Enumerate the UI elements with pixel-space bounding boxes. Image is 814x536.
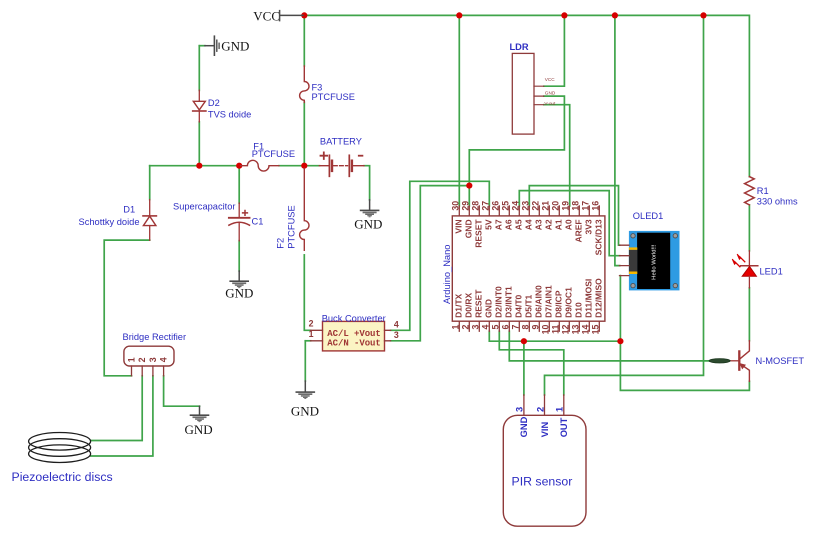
fuse F3 PTCFUSE [300, 66, 309, 102]
wire OLED pin4 to GND net [619, 276, 621, 342]
svg-text:A7: A7 [494, 219, 504, 230]
wire VCC rail to R1 [304, 15, 749, 176]
svg-text:Piezoelectric discs: Piezoelectric discs [12, 470, 113, 484]
svg-text:Bridge Rectifier: Bridge Rectifier [123, 332, 187, 342]
Arduino pin stubs [459, 206, 599, 331]
resistor R1 [745, 177, 755, 205]
svg-text:20: 20 [550, 201, 560, 211]
svg-text:D7/AIN1: D7/AIN1 [544, 285, 554, 318]
svg-text:3: 3 [470, 325, 480, 330]
wire buck AC/N lead [305, 340, 310, 342]
svg-text:Hello World!!!: Hello World!!! [652, 244, 658, 280]
svg-text:15: 15 [590, 325, 600, 335]
svg-text:D11/MOSI: D11/MOSI [584, 279, 594, 318]
svg-text:D6/AIN0: D6/AIN0 [534, 285, 544, 318]
LED LED1 [732, 251, 758, 288]
wire GND to D2 [198, 46, 200, 91]
svg-text:17: 17 [580, 201, 590, 211]
svg-text:24: 24 [510, 201, 520, 211]
OLED1 module [620, 231, 680, 291]
svg-text:2: 2 [137, 357, 147, 362]
svg-text:Schottky doide: Schottky doide [79, 217, 140, 227]
svg-text:GND: GND [354, 216, 382, 231]
wire ground lead C1 [238, 271, 240, 280]
svg-text:1: 1 [450, 325, 460, 330]
svg-text:5: 5 [490, 325, 500, 330]
svg-text:BATTERY: BATTERY [320, 137, 362, 147]
svg-text:4: 4 [159, 357, 169, 362]
svg-text:18: 18 [570, 201, 580, 211]
wire ground lead buck [304, 381, 306, 391]
svg-text:D5/T1: D5/T1 [524, 294, 534, 317]
svg-text:LED1: LED1 [760, 267, 783, 277]
svg-text:A1: A1 [554, 219, 564, 230]
ground top-left (bar style) [205, 36, 219, 55]
svg-text:TVS doide: TVS doide [208, 110, 251, 120]
svg-text:A2: A2 [544, 219, 554, 230]
svg-text:AREF: AREF [574, 219, 584, 242]
svg-text:SCK/D13: SCK/D13 [594, 219, 604, 255]
svg-text:Supercapacitor: Supercapacitor [173, 202, 236, 212]
svg-text:GND: GND [545, 91, 556, 96]
wire VCC to fuse F3 [303, 15, 305, 66]
svg-text:V-out: V-out [544, 101, 556, 106]
wire Arduino GND pin29 to LDR GND [469, 96, 564, 206]
wire F2 gap segment [303, 255, 305, 260]
svg-text:Arduino_Nano: Arduino_Nano [442, 245, 452, 304]
svg-text:29: 29 [460, 201, 470, 211]
wire GND bus to MOSFET source [620, 341, 749, 390]
svg-text:12: 12 [560, 325, 570, 335]
svg-text:13: 13 [570, 325, 580, 335]
svg-text:D12/MISO: D12/MISO [594, 278, 604, 318]
wire LDR V-out to Arduino A0 [544, 105, 570, 206]
svg-text:30: 30 [450, 201, 460, 211]
wire D2 to node rail [198, 122, 200, 166]
svg-text:R1: R1 [757, 186, 769, 196]
svg-text:GND: GND [464, 219, 474, 238]
wire VCC to Arduino VIN pin30 [458, 15, 460, 206]
svg-text:4: 4 [480, 325, 490, 330]
wire junction to F2 [303, 167, 305, 169]
wire C1 to ground [238, 241, 240, 272]
wire F2 to buck AC/L [304, 262, 310, 331]
svg-text:16: 16 [590, 201, 600, 211]
svg-text:27: 27 [480, 201, 490, 211]
junction [700, 12, 706, 18]
svg-text:11: 11 [550, 325, 560, 334]
svg-text:PTCFUSE: PTCFUSE [312, 92, 355, 102]
ground battery [360, 210, 380, 218]
svg-text:D1: D1 [123, 204, 135, 214]
wire Arduino A4 to OLED pin1 [529, 186, 619, 246]
svg-text:10: 10 [540, 325, 550, 335]
svg-text:A4: A4 [524, 219, 534, 230]
wire D1 to bridge pin1 [104, 240, 150, 376]
wire bridge pin3 to piezo bottom [91, 376, 153, 456]
diode D1 Schottky [143, 200, 156, 241]
svg-text:1: 1 [555, 407, 565, 412]
wire R1 to LED1 [748, 205, 750, 251]
svg-text:RESET: RESET [474, 219, 484, 248]
svg-text:D3/INT1: D3/INT1 [504, 286, 514, 318]
svg-text:21: 21 [540, 201, 550, 211]
junction [617, 338, 623, 344]
transistor N-MOSFET [709, 341, 749, 382]
svg-text:3: 3 [394, 330, 399, 340]
wire Arduino D2/INT0 to PIR OUT [499, 331, 564, 395]
wire bridge pin4 to ground [164, 376, 200, 406]
svg-text:RESET: RESET [474, 289, 484, 318]
wire rail down to D1 [149, 166, 151, 200]
piezoelectric discs [29, 433, 91, 463]
svg-text:4: 4 [394, 320, 399, 330]
svg-text:D10: D10 [574, 302, 584, 318]
battery BT1 [319, 152, 364, 176]
svg-text:6: 6 [500, 325, 510, 330]
fuse F2 PTCFUSE [300, 169, 309, 251]
svg-text:A6: A6 [504, 219, 514, 230]
svg-text:LDR: LDR [510, 42, 529, 52]
wire Arduino A5 to OLED pin2 [519, 191, 619, 256]
wire battery minus to ground [364, 166, 370, 200]
wire F3 to battery junction [303, 102, 305, 164]
svg-text:8: 8 [520, 325, 530, 330]
svg-text:5V: 5V [484, 219, 494, 230]
svg-text:7: 7 [510, 325, 520, 330]
ground C1 [229, 280, 249, 288]
wire buck -Vout to GND net [391, 186, 470, 341]
svg-text:14: 14 [580, 325, 590, 335]
svg-text:VCC: VCC [545, 77, 556, 82]
fuse F1 PTCFUSE [241, 160, 279, 171]
svg-text:22: 22 [530, 201, 540, 211]
junction [612, 12, 618, 18]
svg-text:D4/T0: D4/T0 [514, 294, 524, 317]
junction [521, 338, 527, 344]
buck converter U2 [311, 321, 391, 351]
wire GND bus to PIR GND [523, 341, 525, 395]
svg-text:OUT: OUT [559, 417, 569, 437]
LDR module [512, 53, 544, 134]
wire node rail D1 to F1 [150, 165, 241, 167]
svg-text:25: 25 [500, 201, 510, 211]
svg-text:1: 1 [309, 329, 314, 339]
svg-text:Buck Converter: Buck Converter [322, 314, 386, 324]
wire rail to PIR VIN [545, 15, 704, 395]
svg-text:A0: A0 [564, 219, 574, 230]
junction [561, 12, 567, 18]
svg-text:PTCFUSE: PTCFUSE [252, 149, 295, 159]
svg-text:AC/N -Vout: AC/N -Vout [327, 338, 381, 348]
svg-text:GND: GND [221, 39, 249, 54]
svg-text:2: 2 [309, 319, 314, 329]
svg-text:26: 26 [490, 201, 500, 211]
svg-text:VIN: VIN [454, 219, 464, 233]
svg-text:3: 3 [148, 357, 158, 362]
svg-text:PIR sensor: PIR sensor [512, 475, 573, 489]
ground bridge [190, 414, 210, 422]
junction [456, 12, 462, 18]
wire bridge pin2 to piezo top [91, 376, 142, 441]
wire GND lead D2 [199, 45, 205, 47]
svg-text:3: 3 [515, 407, 525, 412]
ground buck [296, 391, 316, 399]
wire rail to OLED pin3 [615, 15, 620, 265]
wire LED1 to MOSFET drain [748, 288, 750, 341]
capacitor C1 supercapacitor [229, 203, 250, 241]
wire buck AC/N to ground [304, 341, 306, 381]
diode D2 TVS [193, 90, 206, 122]
wire ground lead battery [369, 200, 371, 210]
svg-text:GND: GND [484, 299, 494, 318]
svg-text:330 ohms: 330 ohms [757, 196, 798, 206]
svg-text:1: 1 [127, 357, 137, 362]
junction [236, 163, 242, 169]
svg-text:GND: GND [225, 286, 253, 301]
svg-text:2: 2 [535, 407, 545, 412]
PIR sensor module [503, 395, 586, 526]
bridge rectifier [124, 346, 174, 376]
svg-text:GND: GND [291, 403, 319, 418]
svg-text:D8/ICP: D8/ICP [554, 290, 564, 318]
svg-text:23: 23 [520, 201, 530, 211]
junction [466, 183, 472, 189]
svg-text:D9/OC1: D9/OC1 [564, 287, 574, 318]
svg-text:3V3: 3V3 [584, 219, 594, 234]
junction [196, 163, 202, 169]
svg-text:OLED1: OLED1 [633, 211, 664, 221]
wire LDR VCC to rail [544, 15, 565, 86]
svg-text:D1/TX: D1/TX [454, 293, 464, 317]
wire node rail to C1 [238, 166, 240, 204]
junction [301, 163, 307, 169]
svg-text:PTCFUSE: PTCFUSE [287, 205, 297, 248]
wire ground lead bridge [199, 406, 201, 414]
wire Arduino D3/INT1 to MOSFET gate [509, 331, 709, 361]
svg-text:D2: D2 [208, 98, 220, 108]
svg-text:N-MOSFET: N-MOSFET [756, 356, 805, 366]
svg-text:VIN: VIN [540, 422, 550, 438]
svg-text:D0/RX: D0/RX [464, 293, 474, 318]
svg-text:GND: GND [519, 416, 529, 437]
svg-text:2: 2 [460, 325, 470, 330]
svg-text:D2/INT0: D2/INT0 [494, 286, 504, 318]
svg-text:19: 19 [560, 201, 570, 211]
junction [301, 12, 307, 18]
wire F1 to battery [279, 165, 320, 167]
wire Arduino GND pin4 bus [489, 331, 620, 341]
op-amp U1 Arduino_Nano body [452, 216, 605, 321]
svg-text:9: 9 [530, 325, 540, 330]
svg-text:F2: F2 [276, 238, 286, 249]
svg-text:C1: C1 [252, 217, 264, 227]
svg-text:VCC: VCC [253, 8, 280, 23]
svg-text:GND: GND [185, 422, 213, 437]
svg-text:A5: A5 [514, 219, 524, 230]
svg-text:A3: A3 [534, 219, 544, 230]
svg-text:28: 28 [470, 201, 480, 211]
wire buck +Vout to Arduino 5V [391, 181, 490, 330]
